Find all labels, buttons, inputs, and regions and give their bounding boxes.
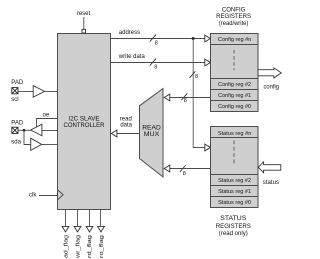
wire address: [111, 38, 205, 40]
junction sda node: [23, 129, 26, 132]
buffer sda input: [31, 138, 42, 150]
svg-text:(read/write): (read/write): [219, 21, 249, 27]
svg-text:Status reg #1: Status reg #1: [218, 189, 251, 195]
wire clk: [39, 195, 58, 197]
svg-text:address: address: [119, 30, 140, 36]
arrowhead rd_flag: [86, 226, 93, 232]
svg-text:STATUS: STATUS: [220, 216, 246, 222]
svg-text:Status reg #2: Status reg #2: [218, 178, 251, 184]
svg-text:8: 8: [154, 64, 157, 70]
arrowhead read data into block: [111, 130, 117, 137]
svg-text:CONFIG: CONFIG: [222, 7, 246, 13]
arrowhead wr_flag: [74, 226, 81, 232]
arrowhead address into config: [205, 35, 211, 42]
ellipsis dashed (status): [233, 141, 235, 165]
status registers stack: [211, 127, 259, 208]
bus slash address: [150, 35, 156, 42]
wire status readback to mux: [170, 168, 211, 170]
svg-text:CONTROLLER: CONTROLLER: [64, 122, 105, 129]
svg-text:scl: scl: [11, 97, 18, 103]
svg-text:Status reg #n: Status reg #n: [218, 131, 252, 137]
block arrow config output: [258, 68, 281, 78]
svg-text:(read only): (read only): [219, 231, 248, 237]
svg-text:wr_flag: wr_flag: [75, 235, 81, 259]
svg-text:ro_flag: ro_flag: [99, 235, 105, 258]
clock chevron: [58, 190, 64, 200]
svg-text:reset: reset: [77, 11, 91, 17]
svg-text:write data: write data: [118, 54, 146, 60]
svg-text:PAD: PAD: [11, 121, 24, 127]
svg-text:Status reg #0: Status reg #0: [218, 200, 251, 206]
junction node address/select: [192, 37, 195, 40]
arrowhead ad_flag: [62, 226, 69, 232]
wire scl pad to buffer: [18, 91, 33, 93]
buffer sda output tri-state: [31, 124, 42, 136]
wire sda input buffer to block: [42, 144, 58, 146]
pad symbol sda: [12, 127, 18, 133]
svg-text:clk: clk: [29, 193, 37, 199]
svg-text:config: config: [264, 85, 280, 91]
bus slash select: [190, 71, 196, 78]
svg-text:status: status: [263, 180, 279, 186]
svg-text:REGISTERS: REGISTERS: [216, 14, 251, 20]
wire sda junction to input buffer: [24, 130, 31, 144]
svg-text:8: 8: [183, 171, 186, 177]
pad symbol scl: [12, 88, 18, 94]
wire write data: [111, 62, 205, 64]
bus slash write data: [150, 59, 156, 66]
bus slash status readback: [180, 165, 186, 172]
wire reset: [83, 17, 85, 29]
wire flag out wr: [77, 209, 79, 226]
svg-text:MUX: MUX: [144, 132, 160, 138]
svg-text:rd_flag: rd_flag: [87, 235, 93, 258]
bus slash config readback: [182, 93, 188, 100]
reset terminal square: [82, 29, 86, 33]
wire sda tri-state to block: [42, 130, 58, 132]
mux READ MUX: [140, 89, 164, 178]
svg-text:Config reg #2: Config reg #2: [218, 82, 251, 88]
wire scl buffer to block: [45, 91, 58, 93]
svg-text:oe: oe: [43, 113, 50, 119]
svg-text:8: 8: [155, 41, 158, 47]
config registers stack: [211, 34, 259, 112]
block U1 I2C SLAVE CONTROLLER: [58, 34, 111, 210]
svg-text:8: 8: [195, 74, 198, 80]
wire read data mux to block: [117, 133, 140, 135]
svg-text:read: read: [120, 116, 132, 122]
svg-text:sda: sda: [11, 139, 21, 145]
svg-text:Config reg #0: Config reg #0: [218, 104, 251, 110]
svg-text:Config reg #n: Config reg #n: [218, 37, 252, 43]
buffer scl input: [33, 86, 44, 98]
wire select from address junction down to status: [193, 39, 205, 148]
wire oe: [37, 119, 58, 127]
arrowhead ro_flag: [98, 226, 105, 232]
svg-text:data: data: [120, 123, 132, 129]
wire flag out ro: [100, 209, 102, 226]
arrowhead status readback into mux: [164, 165, 170, 172]
ellipsis dashed (config): [233, 50, 235, 70]
svg-text:PAD: PAD: [11, 80, 24, 86]
wire config readback to mux: [170, 97, 211, 99]
svg-text:READ: READ: [142, 126, 161, 132]
svg-text:8: 8: [184, 98, 187, 104]
arrowhead select into status: [205, 144, 211, 151]
svg-text:Config reg #1: Config reg #1: [218, 93, 251, 99]
arrowhead config readback into mux: [164, 94, 170, 101]
block arrow status input: [258, 162, 281, 173]
svg-text:ad_flag: ad_flag: [64, 235, 70, 258]
wire flag out rd: [89, 209, 91, 226]
wire sda pad to junction: [18, 129, 31, 131]
arrowhead write data into config: [205, 59, 211, 66]
svg-text:REGISTERS: REGISTERS: [216, 224, 251, 230]
wire flag out ad: [65, 209, 67, 226]
